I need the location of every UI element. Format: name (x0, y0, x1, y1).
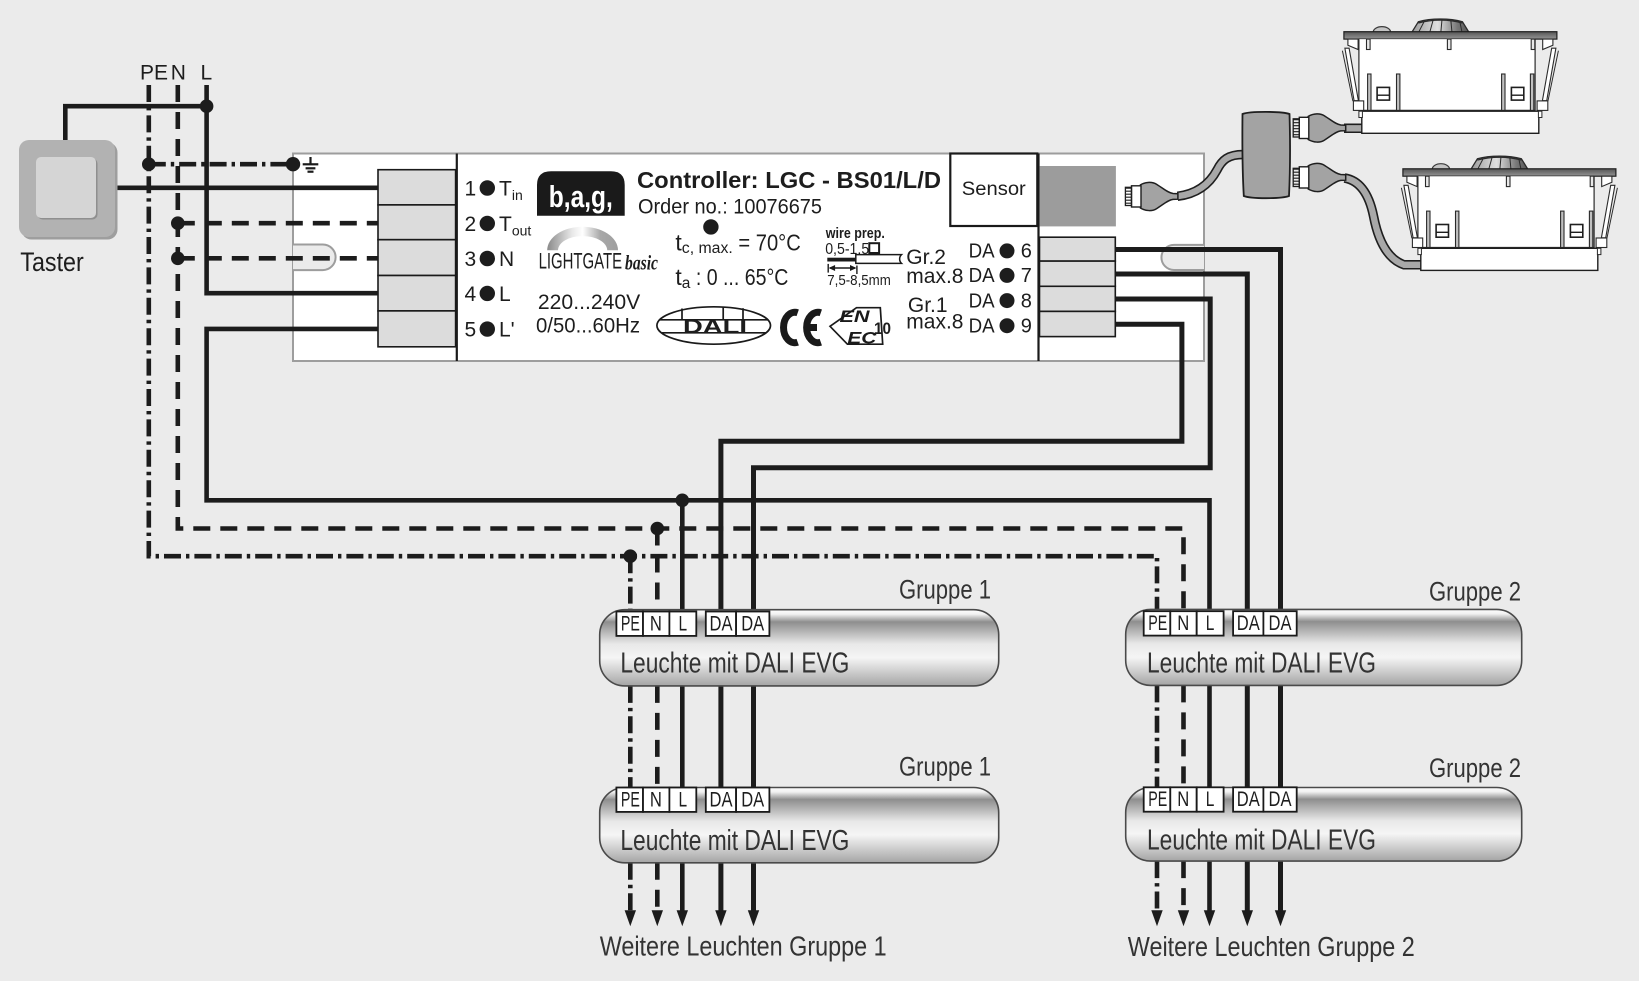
svg-text:N: N (499, 248, 514, 271)
DA terminal blocks (1040, 237, 1116, 336)
wire exit arrow PE group2 (1155, 861, 1160, 915)
node PE lamp1 (624, 549, 638, 563)
arrowhead N group1 (652, 910, 663, 926)
svg-text:LIGHTGATE: LIGHTGATE (539, 249, 623, 274)
svg-text:DA: DA (969, 290, 996, 312)
svg-text:Weitere Leuchten Gruppe 1: Weitere Leuchten Gruppe 1 (600, 930, 887, 961)
DA7 terminal box (1040, 261, 1116, 286)
svg-text:Leuchte mit DALI EVG: Leuchte mit DALI EVG (1147, 647, 1376, 679)
lamp1-lamp2 column DA (718, 686, 723, 788)
svg-text:N: N (171, 62, 186, 85)
connector plug into controller (1125, 182, 1178, 210)
arrowhead DA group1 (715, 910, 726, 926)
svg-text:5: 5 (465, 319, 477, 342)
svg-text:3: 3 (465, 248, 477, 271)
svg-text:Taster: Taster (20, 247, 84, 277)
svg-text:EC: EC (847, 329, 877, 348)
DA8 terminal box (1040, 286, 1116, 311)
lamp3 terminal labels (1144, 611, 1297, 635)
svg-text:L': L' (499, 319, 515, 342)
wire L branch down to lamp1 (680, 500, 685, 609)
node N/terminal2 (171, 216, 185, 230)
lamp 4 (Gruppe 2 lower) (1126, 788, 1522, 862)
sensor cable: splitter to sensor 2 (1345, 178, 1423, 265)
svg-text:basic: basic (625, 251, 659, 275)
controller housing (white box) (293, 154, 1204, 362)
arrowhead DA group2 (1242, 910, 1253, 926)
separator line left terminal column (456, 154, 458, 362)
svg-text:Leuchte mit DALI EVG: Leuchte mit DALI EVG (620, 648, 849, 680)
spring clips left (1345, 48, 1359, 100)
wire L vertical from top (207, 85, 378, 293)
lamp boxes (600, 609, 1522, 862)
svg-text:wire prep.: wire prep. (825, 225, 885, 242)
svg-text:EN: EN (840, 307, 871, 326)
svg-text:L: L (201, 62, 213, 85)
connector plug splitter lower (1293, 163, 1346, 191)
svg-text:Weitere Leuchten Gruppe 2: Weitere Leuchten Gruppe 2 (1128, 931, 1415, 962)
arrowhead DA2 group1 (748, 910, 759, 926)
lamp1-lamp2 column DA2 (751, 686, 756, 788)
LIGHTGATE basic logo (547, 227, 618, 251)
svg-text:DA: DA (969, 265, 996, 287)
spring clips right (1542, 48, 1556, 100)
node L lamp1 (676, 494, 690, 508)
dimension arrow (828, 264, 857, 274)
body tub (1359, 39, 1535, 110)
wire exit arrow L group2 (1207, 861, 1212, 915)
wire PE branch to ground (149, 162, 290, 167)
svg-text:DA: DA (741, 612, 764, 635)
wire DA6 (1115, 250, 1280, 610)
terminal 3 box (378, 240, 456, 276)
svg-text:8: 8 (1021, 290, 1032, 312)
wire exit arrow N group1 (655, 863, 660, 915)
svg-text:Order no.: 10076675: Order no.: 10076675 (638, 195, 822, 219)
svg-text:0/50...60Hz: 0/50...60Hz (536, 313, 640, 337)
lamp3-lamp4 column DA2 (1278, 685, 1283, 787)
node PE/ground branch (142, 157, 156, 171)
svg-text:1: 1 (465, 178, 477, 201)
lamp3-lamp4 column N (1181, 685, 1186, 787)
wire N branch to terminal 2 (178, 221, 378, 226)
lamp texts (620, 647, 1376, 857)
svg-text:max.8: max.8 (906, 265, 963, 288)
ENEC 10 logo (830, 307, 891, 348)
lamp4 terminal labels (1144, 787, 1297, 811)
bottom captions (600, 930, 1415, 962)
connector blocks (1377, 87, 1524, 100)
arrowhead L group2 (1204, 910, 1215, 926)
wire exit arrow DA group1 (718, 863, 723, 915)
wire exit arrow DA2 group1 (751, 863, 756, 915)
b,a,g, logo (537, 171, 625, 215)
svg-text:Gruppe 1: Gruppe 1 (899, 752, 991, 782)
lamp1-lamp2 column PE (628, 686, 633, 788)
DALI splitter box (1242, 112, 1290, 198)
dome lens (1412, 19, 1469, 32)
terminal 5 box (378, 311, 456, 347)
svg-text:DA: DA (969, 315, 996, 337)
svg-text:max.8: max.8 (906, 311, 963, 334)
inner pins (1368, 74, 1534, 110)
svg-text:Leuchte mit DALI EVG: Leuchte mit DALI EVG (1147, 825, 1376, 857)
lamp 1 (Gruppe 1 upper) (600, 610, 999, 686)
node N lamp1 (651, 522, 665, 536)
bezel corner blocks (1348, 39, 1358, 49)
arrowhead N group2 (1178, 910, 1189, 926)
svg-text:Gruppe 2: Gruppe 2 (1429, 576, 1521, 606)
wire PE branch down to lamp1 (628, 556, 633, 610)
svg-text:DA: DA (969, 241, 996, 263)
svg-text:PE: PE (621, 612, 640, 635)
svg-text:6: 6 (1021, 241, 1032, 263)
svg-text:7: 7 (1021, 265, 1032, 287)
lamp1 terminal labels (616, 612, 769, 636)
lamp 2 (Gruppe 1 lower) (600, 788, 999, 863)
node L/Taster (200, 99, 214, 113)
svg-text:Gruppe 1: Gruppe 1 (899, 574, 991, 604)
wire PE vertical from top (149, 85, 1157, 609)
bezel plate (1344, 32, 1557, 39)
housing cable notch right (1161, 245, 1204, 270)
Sensor label box (950, 154, 1037, 227)
separator line right (1037, 154, 1039, 362)
svg-text:DALI: DALI (683, 316, 747, 338)
terminal block left (terminals 1-5) (378, 170, 456, 347)
svg-text:PE: PE (140, 62, 168, 85)
feet (1353, 101, 1547, 111)
svg-text:N: N (650, 612, 662, 635)
wire N vertical from top (178, 85, 1184, 609)
svg-text:DA: DA (710, 612, 733, 635)
sensor cable: controller to splitter (1178, 155, 1244, 197)
wire Taster to T_in (115, 186, 378, 191)
arrowhead DA2 group2 (1275, 910, 1286, 926)
wire L' from terminal 5 (207, 329, 1210, 610)
sensor 1 (1342, 19, 1558, 133)
small side bump (1373, 27, 1390, 33)
node ground at housing (286, 157, 300, 171)
svg-text:10: 10 (874, 320, 891, 338)
terminal labels 1..5 (465, 178, 532, 342)
arrowhead PE group2 (1151, 910, 1162, 926)
wire prep icon (827, 258, 856, 262)
DA6 terminal box (1040, 237, 1116, 261)
terminal 2 box (378, 205, 456, 240)
node N/terminal3 (171, 251, 185, 265)
wire DA7 (1115, 274, 1247, 609)
DA9 terminal box (1040, 311, 1116, 336)
lamp3-lamp4 column L (1207, 685, 1212, 787)
svg-text:b,a,g,: b,a,g, (549, 179, 613, 214)
base box (1362, 111, 1539, 133)
svg-text:Controller: LGC - BS01/L/D: Controller: LGC - BS01/L/D (637, 167, 941, 193)
lamp 3 (Gruppe 2 upper) (1126, 609, 1522, 685)
svg-text:4: 4 (465, 283, 477, 306)
wire exit arrow N group2 (1181, 861, 1186, 915)
ground symbol (303, 157, 319, 172)
lamp3-lamp4 column DA (1245, 685, 1250, 787)
base stubs (1359, 111, 1363, 117)
wire exit arrow DA group2 (1245, 861, 1250, 915)
DA pin labels 6..9 (969, 241, 1032, 338)
arrowhead L group1 (677, 910, 688, 926)
svg-text:Leuchte mit DALI EVG: Leuchte mit DALI EVG (620, 825, 849, 857)
tc measuring point dot (703, 219, 718, 234)
svg-text:Gruppe 2: Gruppe 2 (1429, 753, 1521, 783)
lamp2 terminal labels (616, 788, 769, 812)
sensor socket gray box (1040, 166, 1116, 226)
sensor cable: splitter to sensor 1 (1344, 124, 1365, 134)
wire exit arrow L group1 (680, 863, 685, 915)
group labels Gr.2 / Gr.1 (906, 246, 963, 334)
hanging tabs (1367, 39, 1535, 49)
svg-text:9: 9 (1021, 315, 1032, 337)
housing cable notch left (293, 245, 336, 271)
svg-text:L: L (679, 612, 688, 635)
arrowhead PE group1 (625, 910, 636, 926)
lamp1-lamp2 column L (680, 686, 685, 788)
terminal 1 box (378, 170, 456, 205)
group captions (899, 574, 1521, 783)
CE logo (784, 312, 821, 342)
wire DA9 (721, 324, 1182, 609)
wire N branch down to lamp1 (655, 529, 660, 610)
wire exit arrow DA2 group2 (1278, 861, 1283, 915)
wire DA8 (754, 299, 1211, 610)
svg-text:ta : 0 ... 65°C: ta : 0 ... 65°C (675, 264, 788, 292)
svg-text:2: 2 (465, 213, 477, 236)
svg-text:Sensor: Sensor (962, 178, 1027, 200)
wire N branch to terminal 3 (178, 256, 378, 261)
terminal 4 box (378, 276, 456, 311)
connector plug splitter upper (1293, 114, 1346, 142)
svg-text:7,5-8,5mm: 7,5-8,5mm (827, 272, 891, 289)
sensor 2 (1401, 156, 1617, 270)
DALI logo (657, 307, 771, 344)
junction dots (142, 99, 689, 563)
svg-text:L: L (499, 283, 511, 306)
Taster pushbutton (19, 140, 118, 240)
lamp3-lamp4 column PE (1155, 685, 1160, 787)
wire exit arrow PE group1 (628, 863, 633, 915)
lamp1-lamp2 column N (655, 686, 660, 788)
svg-text:220...240V: 220...240V (538, 290, 641, 314)
wire L branch to Taster (65, 106, 206, 140)
